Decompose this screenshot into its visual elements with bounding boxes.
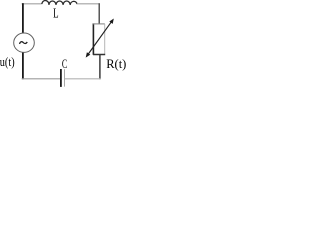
svg-text:u(t): u(t) [0,55,15,69]
svg-text:R(t): R(t) [106,57,126,71]
svg-text:L: L [53,7,59,22]
svg-text:C: C [62,56,67,71]
